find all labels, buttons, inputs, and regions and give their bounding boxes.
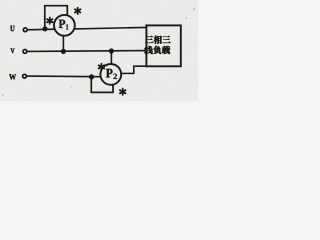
wire P1 voltage loop: [45, 6, 68, 29]
scan speck top right: [193, 7, 195, 10]
terminal U: [23, 28, 27, 32]
node on V line (P2 voltage tap): [109, 48, 114, 53]
load label char 相: [154, 36, 162, 44]
polarity mark * P1 current coil: [47, 18, 53, 24]
terminal label W: [9, 74, 16, 79]
node on W line (P2): [89, 74, 94, 79]
wire P2 to V line: [110, 51, 112, 64]
load box: [146, 25, 180, 66]
wire W left segment: [27, 75, 100, 78]
load label char 线: [144, 46, 152, 54]
wire U right segment to load: [75, 27, 146, 29]
scan speck mid bottom: [71, 87, 73, 88]
load label char 载: [162, 46, 170, 54]
terminal label V: [11, 48, 15, 53]
terminal W: [23, 74, 27, 78]
terminal V: [23, 50, 27, 54]
polarity mark * P1 voltage coil: [75, 8, 81, 14]
wattmeter P1: [54, 15, 75, 36]
wire P2 voltage loop: [91, 77, 113, 93]
scan grain overlay: [0, 0, 198, 101]
polarity mark * P2 current coil: [99, 64, 105, 70]
terminal label U: [10, 26, 14, 31]
wire U left segment: [27, 28, 54, 31]
polarity mark * P2 voltage coil: [120, 89, 126, 95]
scan speck faint right: [186, 17, 188, 19]
load label char 三 (2): [162, 36, 170, 43]
node on V line (P1): [61, 49, 66, 54]
scan speck left bottom: [2, 95, 4, 97]
wire V: [27, 50, 146, 53]
wire W right segment with riser to load: [121, 66, 146, 73]
load label char 三 (1): [145, 36, 153, 43]
wattmeter P2: [100, 64, 121, 85]
load label char 负: [153, 46, 161, 54]
wire P1 to V line: [62, 36, 64, 52]
node on U line (P1 voltage tap): [42, 26, 47, 31]
